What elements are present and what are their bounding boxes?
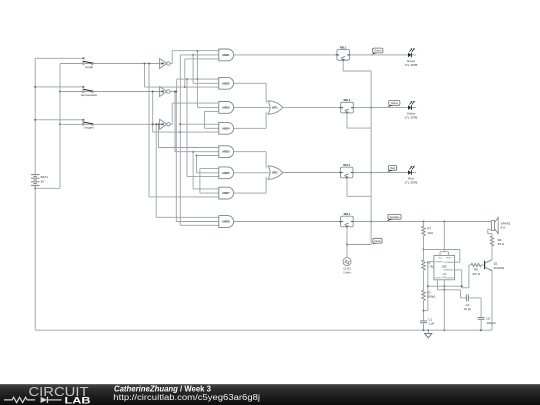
relay REL1 xyxy=(337,50,350,61)
wire AND3 output xyxy=(234,106,270,108)
svg-text:5V: 5V xyxy=(41,180,45,184)
wire AND3 inputs xyxy=(172,102,219,104)
node second rail junctions xyxy=(59,91,61,93)
ground xyxy=(427,330,429,333)
relay REL2 xyxy=(341,102,354,113)
svg-text:AND6: AND6 xyxy=(222,171,230,175)
resistor R5 xyxy=(423,250,425,260)
wire trigger net xyxy=(428,261,434,263)
wire clock bus xyxy=(370,71,372,245)
svg-text:10 µF: 10 µF xyxy=(464,307,472,311)
speaker SPKR1 xyxy=(492,221,495,231)
wire OR2 output xyxy=(283,172,341,174)
wire R7 to discharge xyxy=(424,249,460,251)
wire REL4 coil xyxy=(346,227,348,258)
wire link AND1-AND3 xyxy=(196,51,198,108)
wire threshold feedback xyxy=(428,285,462,287)
svg-text:Green: Green xyxy=(374,49,382,53)
svg-text:OUTPUT: OUTPUT xyxy=(435,278,442,280)
wire AND4 inputs xyxy=(180,123,219,125)
wire REL4 to speaker rail xyxy=(353,221,491,223)
flag Clock xyxy=(373,238,382,243)
wire AND7 output xyxy=(234,192,267,194)
svg-text:REL3: REL3 xyxy=(343,163,350,167)
svg-text:REL2: REL2 xyxy=(344,98,351,102)
svg-text:1 µF: 1 µF xyxy=(428,322,434,326)
wire AND6 inputs xyxy=(200,168,219,170)
svg-text:100 µF: 100 µF xyxy=(486,321,496,325)
wire AND5 inputs xyxy=(159,147,219,149)
flag Speaker xyxy=(388,214,401,219)
wire OR1 output xyxy=(283,107,341,109)
wire control to C4 xyxy=(460,290,462,298)
AND gate AND8 xyxy=(219,216,234,228)
wire REL1 to green LED xyxy=(350,54,409,56)
wire AND2 inputs xyxy=(177,78,219,80)
wire link AND3-AND4 xyxy=(204,111,206,128)
relay REL3 xyxy=(340,167,353,178)
wire inverter U4 output xyxy=(170,123,172,125)
svg-text:AND5: AND5 xyxy=(222,150,230,154)
wire C4 to C5 xyxy=(480,298,482,318)
wire tap row1 to AND7 xyxy=(148,64,150,197)
wire row3 feed xyxy=(35,119,83,121)
AND gate AND7 xyxy=(219,187,234,199)
svg-text:temperature: temperature xyxy=(81,93,98,97)
wire AND8 output xyxy=(234,221,341,223)
svg-text:THRESHOLD: THRESHOLD xyxy=(443,270,454,272)
svg-text:REL1: REL1 xyxy=(340,45,347,49)
wire REL2 coil xyxy=(346,113,348,128)
wire tap inv2 to AND5 xyxy=(174,92,176,152)
svg-text:LTL 30TB: LTL 30TB xyxy=(405,116,418,120)
wire link AND6-AND7 xyxy=(199,169,201,194)
switch SW3 oxygen xyxy=(83,119,85,121)
svg-text:cough: cough xyxy=(85,65,94,69)
wire AND1 output xyxy=(234,54,337,56)
AND gate AND5 xyxy=(219,146,234,158)
wire cough signal xyxy=(60,63,160,65)
resistor R6 xyxy=(471,263,481,266)
wire temperature signal xyxy=(60,91,160,93)
wire bus riser A xyxy=(179,55,181,225)
resistor R7 xyxy=(423,222,425,227)
svg-text:U1: U1 xyxy=(443,272,447,276)
wire inverter U3 output xyxy=(170,91,177,93)
wire row2 feed xyxy=(35,86,83,88)
svg-text:Yellow: Yellow xyxy=(390,101,398,105)
or-gate OR1 xyxy=(268,101,283,114)
svg-text:555: 555 xyxy=(442,264,447,268)
svg-text:CONTROL: CONTROL xyxy=(446,278,454,280)
LED D3 red xyxy=(412,172,417,174)
inverter U2 xyxy=(160,59,167,69)
wire link AND5-AND7 xyxy=(192,152,194,189)
wire REL1 coil xyxy=(342,60,344,71)
inverter U4 xyxy=(160,119,167,129)
wire bus riser B xyxy=(184,59,186,87)
AND gate AND1 xyxy=(219,49,234,61)
wire inverter U2 output xyxy=(170,63,172,65)
svg-text:AND7: AND7 xyxy=(222,191,230,195)
wire battery to ground rail xyxy=(34,188,36,330)
inverter U3 xyxy=(160,87,167,97)
wire tap inv2 to AND8 xyxy=(175,92,177,222)
svg-text:OR2: OR2 xyxy=(272,171,278,175)
wire tap row2 to AND4 xyxy=(152,92,154,133)
capacitor C4 xyxy=(465,294,467,301)
svg-text:1kΩ: 1kΩ xyxy=(427,231,433,235)
wire REL3 to red LED xyxy=(353,172,408,174)
wire oxygen signal xyxy=(60,123,160,125)
wire bus riser C xyxy=(186,79,188,177)
wire tap row3 to AND8 xyxy=(155,124,157,217)
AND gate AND6 xyxy=(219,167,234,179)
flag Yellow xyxy=(389,101,400,106)
or-gate OR2 xyxy=(268,166,283,179)
svg-text:Speaker: Speaker xyxy=(389,215,399,219)
svg-text:1 kHz: 1 kHz xyxy=(343,270,351,274)
wire AND8 inputs xyxy=(156,216,219,218)
wire AND4 output xyxy=(234,127,267,129)
switch SW1 cough xyxy=(83,57,85,59)
wire AND1 inputs xyxy=(172,50,219,52)
node clock bus junctions xyxy=(370,107,372,109)
svg-text:2N3904: 2N3904 xyxy=(494,266,505,270)
wire to R6 xyxy=(462,287,469,289)
wire emitter xyxy=(491,271,493,330)
flag Red xyxy=(388,166,396,171)
svg-text:Clock: Clock xyxy=(374,239,381,243)
AND gate AND2 xyxy=(219,77,234,89)
relay REL4 xyxy=(341,216,354,227)
wire tap row3 to AND5 xyxy=(158,124,160,147)
svg-text:AND2: AND2 xyxy=(222,81,230,85)
capacitor C1 xyxy=(420,320,427,322)
svg-text:AND8: AND8 xyxy=(222,220,230,224)
wire REL2 to yellow LED xyxy=(353,107,408,109)
node R3 bottom xyxy=(423,310,425,312)
svg-text:Red: Red xyxy=(390,166,395,170)
svg-text:DISCHARGE: DISCHARGE xyxy=(444,261,455,264)
clock source CLK1 xyxy=(343,258,351,266)
svg-text:TRIGGER: TRIGGER xyxy=(435,261,443,263)
svg-text:470 Ω: 470 Ω xyxy=(472,272,481,276)
LED D1 green xyxy=(412,54,417,56)
transistor Q1 2N3904 xyxy=(484,261,486,270)
svg-text:LTL 30TB: LTL 30TB xyxy=(405,63,418,67)
wire link AND5-AND6 xyxy=(196,156,198,173)
switch SW2 temperature xyxy=(83,86,85,88)
svg-text:REL4: REL4 xyxy=(344,212,351,216)
wire ground rail xyxy=(35,329,492,331)
svg-text:AND3: AND3 xyxy=(222,105,230,109)
svg-text:oxygen: oxygen xyxy=(84,126,94,130)
svg-text:39 Ω: 39 Ω xyxy=(498,242,505,246)
wire second rail xyxy=(59,64,61,189)
wire left supply rail xyxy=(34,58,36,173)
svg-text:http://circuitlab.com/c5yeg63a: http://circuitlab.com/c5yeg63ar6g8j xyxy=(113,393,260,402)
capacitor C5 xyxy=(478,317,485,319)
svg-text:BAT1: BAT1 xyxy=(41,175,49,179)
svg-text:LTL 30TB: LTL 30TB xyxy=(405,181,418,185)
LED D2 yellow xyxy=(412,107,417,109)
node R7 bottom xyxy=(423,249,425,251)
AND gate AND4 xyxy=(219,122,234,134)
svg-text:AND4: AND4 xyxy=(222,126,230,130)
AND gate AND3 xyxy=(219,102,234,114)
timer IC U1 555 xyxy=(434,256,455,280)
svg-text:8 Ω: 8 Ω xyxy=(501,226,507,230)
wire collector xyxy=(491,246,493,260)
node rail junctions xyxy=(34,86,36,88)
wire AND5 output xyxy=(234,151,267,153)
wire REL3 coil xyxy=(346,178,348,196)
svg-text:LAB: LAB xyxy=(65,395,91,405)
resistor R4 xyxy=(490,236,493,246)
svg-text:AND1: AND1 xyxy=(222,53,230,57)
wire AND7 inputs xyxy=(193,188,219,190)
wire tap row1 to AND2 xyxy=(144,64,146,88)
resistor R3 xyxy=(422,290,425,300)
flag Green xyxy=(373,48,383,53)
svg-text:RESET: RESET xyxy=(446,257,452,259)
wire 555 ground pin xyxy=(443,280,445,330)
battery BAT1 xyxy=(34,174,36,175)
wire AND6 output xyxy=(234,172,270,174)
wire output net xyxy=(436,280,438,290)
svg-text:OR1: OR1 xyxy=(272,106,278,110)
wire AND2 output xyxy=(234,82,267,84)
wire link AND1-AND2 xyxy=(192,55,194,83)
